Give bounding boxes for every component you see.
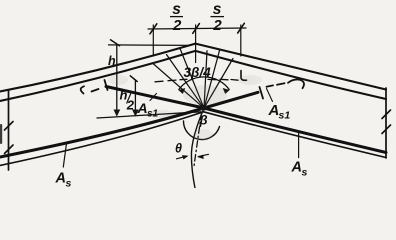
left break mark slash 2 xyxy=(5,145,14,154)
tick dash on fan line 1 xyxy=(155,80,163,83)
extension line right xyxy=(240,25,242,56)
right beam cut line xyxy=(385,88,387,158)
leader line As1 left xyxy=(150,94,157,101)
dimension h vertical line xyxy=(116,45,118,110)
arrow right end of 3beta/4 arc xyxy=(223,88,230,94)
left beam cut line xyxy=(8,90,10,170)
tick middle xyxy=(193,24,200,34)
dimension h/2 vertical line xyxy=(134,80,136,110)
fan stirrup line 1 xyxy=(153,64,204,109)
tick dash on fan line 5 xyxy=(220,78,228,81)
svg-text:θ: θ xyxy=(175,142,182,156)
right break mark slash 1 xyxy=(382,110,391,119)
scan smear left edge xyxy=(0,124,2,144)
vertical dash-dot axis below crossing xyxy=(194,113,202,166)
label As right xyxy=(291,160,308,179)
bottom reinforcement bar As of right beam, extended through crossing into left beam xyxy=(106,87,386,153)
label As left xyxy=(55,171,72,190)
right beam bottom outline xyxy=(204,112,387,158)
extension line left xyxy=(152,25,154,56)
angle arc beta xyxy=(183,121,219,140)
svg-text:β: β xyxy=(199,113,208,128)
svg-text:2: 2 xyxy=(172,17,182,34)
angle arc 3beta/4 xyxy=(179,77,229,90)
svg-text:A: A xyxy=(55,171,66,187)
theta right arrowhead xyxy=(197,155,204,159)
svg-text:2: 2 xyxy=(126,98,135,113)
ink blob at bar crossing node xyxy=(201,106,207,111)
horizontal extension at apex level for h xyxy=(109,44,191,47)
svg-text:3β/4: 3β/4 xyxy=(184,65,212,80)
svg-text:2: 2 xyxy=(212,17,222,34)
dashed hook right xyxy=(288,79,304,88)
theta left arrowhead xyxy=(182,155,189,159)
label As1 left xyxy=(137,100,159,120)
tick left xyxy=(150,24,157,34)
bottom reinforcement bar As of left beam, extended through crossing into right beam xyxy=(0,92,258,157)
tick at top of h xyxy=(111,40,120,46)
extension line middle through apex xyxy=(195,25,197,63)
fan stirrup line 3 xyxy=(180,49,204,109)
svg-text:s1: s1 xyxy=(147,109,159,120)
svg-text:s: s xyxy=(213,1,222,18)
bottom reference line at valley level xyxy=(97,112,201,118)
leader line As left xyxy=(63,144,66,167)
tick dash on fan line 3 xyxy=(180,78,187,80)
fan stirrup line 4 xyxy=(204,51,207,108)
bisector solid line below crossing xyxy=(191,108,204,188)
tick right xyxy=(238,23,245,33)
arrow down of h/2 xyxy=(132,110,139,117)
right break mark slash 2 xyxy=(382,125,391,134)
svg-text:A: A xyxy=(137,100,148,116)
svg-text:s: s xyxy=(302,166,308,178)
fan stirrup line 6 xyxy=(204,59,233,109)
leader line As1 right xyxy=(267,89,273,102)
tick dash on fan line 4 xyxy=(208,78,216,80)
left break mark slash 1 xyxy=(5,122,14,131)
fan stirrup line 5 xyxy=(204,51,220,109)
left beam top inner line (top reinforcement) xyxy=(0,51,195,101)
theta right arrow xyxy=(199,154,209,156)
left beam top outer edge xyxy=(0,44,195,92)
svg-text:s1: s1 xyxy=(279,110,291,122)
dashed hook of bent bar, left: dash xyxy=(92,89,99,92)
label As1 right xyxy=(268,102,291,122)
top dimension line s/2 s/2 xyxy=(148,28,246,29)
arrow down of h xyxy=(114,110,121,117)
arrow left end of 3beta/4 arc xyxy=(178,88,185,94)
svg-text:A: A xyxy=(291,160,302,176)
fan stirrup line 2 xyxy=(167,55,205,109)
tick dash on fan line 2 xyxy=(168,79,176,82)
dashed continuation right: dash 1 xyxy=(267,85,274,86)
label s/2 left xyxy=(170,1,183,34)
right beam top outer edge xyxy=(195,44,386,90)
svg-text:s: s xyxy=(172,1,181,18)
end tick of right bar extension xyxy=(105,80,108,90)
left beam bottom outline xyxy=(0,112,204,166)
label h/2 xyxy=(120,88,135,113)
svg-text:h: h xyxy=(108,54,116,68)
angle theta arrow xyxy=(177,156,187,159)
label s/2 right xyxy=(211,1,225,34)
end tick of left bar extension xyxy=(260,87,264,99)
leader line As right xyxy=(298,132,300,158)
tick dash on fan line 6 xyxy=(231,79,238,82)
stirrup hook symbol J xyxy=(241,71,247,81)
dashed hook of bent bar, left: hook curve xyxy=(81,86,84,93)
right beam top inner line (top reinforcement) xyxy=(195,51,386,99)
svg-text:s: s xyxy=(66,177,72,188)
dashed continuation right: dash 2 xyxy=(277,83,285,85)
